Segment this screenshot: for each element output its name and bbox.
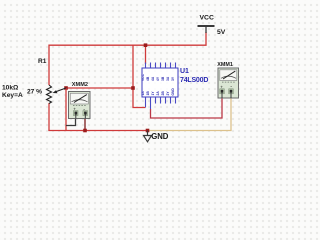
svg-text:XMM1: XMM1 [217, 62, 233, 68]
svg-text:GND: GND [151, 132, 168, 141]
svg-text:XMM2: XMM2 [72, 82, 88, 88]
svg-text:3A: 3A [166, 76, 170, 81]
svg-text:R1: R1 [38, 58, 47, 65]
svg-text:3B: 3B [161, 76, 165, 81]
svg-text:10kΩ: 10kΩ [2, 85, 19, 92]
svg-text:27 %: 27 % [27, 89, 42, 96]
svg-text:74LS00D: 74LS00D [180, 77, 208, 84]
svg-text:4B: 4B [146, 76, 150, 81]
svg-text:1A: 1A [141, 91, 145, 96]
svg-text:2B: 2B [161, 91, 165, 96]
svg-text:1B: 1B [146, 91, 150, 96]
svg-text:U1: U1 [180, 68, 189, 75]
svg-text:Key=A: Key=A [2, 92, 23, 99]
svg-text:4A: 4A [151, 76, 155, 81]
svg-text:VCC: VCC [141, 73, 145, 81]
svg-text:GND: GND [171, 88, 175, 96]
svg-text:VCC: VCC [200, 15, 214, 22]
svg-text:2A: 2A [156, 91, 160, 96]
svg-text:5V: 5V [217, 29, 226, 36]
